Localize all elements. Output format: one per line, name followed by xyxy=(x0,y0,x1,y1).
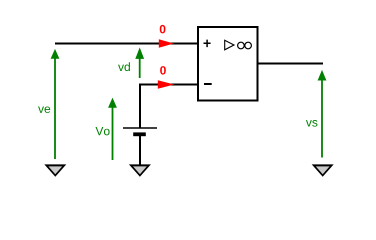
voltage arrow vs xyxy=(306,70,326,158)
ground (left) xyxy=(44,164,66,176)
voltage arrow ve xyxy=(38,49,59,159)
battery V0 xyxy=(123,128,157,136)
wire xyxy=(139,136,141,165)
op-amp U1 xyxy=(198,27,258,101)
current arrow 0 (into + input) xyxy=(159,25,174,48)
current arrow 0 (into - input) xyxy=(158,66,174,89)
voltage arrow Vo xyxy=(95,98,116,160)
wire xyxy=(140,85,197,129)
ground (middle) xyxy=(129,164,151,176)
wire xyxy=(258,63,323,65)
ground (right) xyxy=(312,164,334,176)
voltage arrow vd xyxy=(118,47,144,78)
wire xyxy=(55,43,197,45)
